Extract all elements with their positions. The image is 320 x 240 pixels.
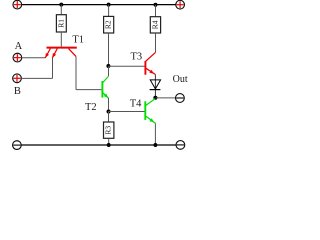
wire R3 bottom lead [108, 138, 110, 145]
wire node to T3 base [108, 65, 145, 67]
wire node to T4 base [109, 111, 145, 113]
resistor R2 [104, 16, 114, 33]
terminal Out [176, 94, 185, 103]
svg-text:B: B [14, 86, 21, 97]
svg-text:R3: R3 [104, 126, 113, 135]
wire T1 collector vertical [75, 56, 77, 89]
wire T2 collector vertical [108, 66, 110, 76]
svg-text:Out: Out [173, 74, 188, 85]
junction dot bottom rail at T4 [153, 143, 157, 147]
svg-text:R4: R4 [151, 20, 160, 29]
svg-text:T1: T1 [72, 35, 84, 46]
resistor R3 [104, 122, 114, 138]
wire R1 bottom lead to T1 base [60, 32, 62, 47]
top supply rail [22, 4, 176, 6]
svg-text:T2: T2 [85, 102, 97, 113]
wire R4 bottom lead to T3 collector [155, 33, 157, 52]
node dot T2 emitter/T4 base/R3 [107, 110, 111, 114]
terminal GND- bottom-right [176, 141, 185, 150]
terminal input A [13, 53, 22, 62]
wire output [156, 97, 176, 99]
junction dot bottom rail at R3 [107, 143, 111, 147]
transistor T2 (green) [102, 76, 108, 98]
node dot output [153, 96, 157, 100]
svg-text:T4: T4 [130, 99, 142, 110]
wire R2 bottom lead to node [108, 33, 110, 66]
wire input B horizontal [21, 77, 52, 79]
transistor T1 multi-emitter (red) [45, 48, 77, 58]
junction dot top rail at R2 [107, 3, 111, 7]
resistor R1 [56, 15, 66, 32]
terminal V+ top-right [176, 0, 185, 9]
terminal GND- bottom-left [13, 141, 22, 150]
transistor T3 (red) [145, 52, 155, 74]
junction dot top rail at R1 [59, 3, 63, 7]
wire node down to R3 [108, 112, 110, 123]
wire T1 collector to T2 base [76, 89, 102, 91]
transistor T4 (green) [145, 99, 155, 124]
svg-text:T3: T3 [131, 52, 143, 63]
resistor R4 [150, 17, 160, 33]
wire T2 emitter vertical [108, 98, 110, 112]
terminal input B [13, 74, 22, 83]
svg-text:R2: R2 [104, 20, 113, 29]
diode D1 [150, 80, 161, 90]
diode D1 anode lead [154, 75, 156, 98]
wire R2 top lead [108, 5, 110, 17]
wire T4 emitter vertical [154, 123, 156, 145]
svg-text:A: A [15, 41, 23, 52]
wire R1 top lead [60, 5, 62, 15]
wire input B vertical to T1 emitter2 [52, 58, 54, 79]
node dot R2/T2 collector/T3 base [106, 64, 110, 68]
terminal V+ top-left [13, 0, 22, 9]
wire input A to T1 emitter1 [22, 57, 45, 59]
junction dot top rail at R4 [154, 3, 158, 7]
wire R4 top lead [155, 5, 157, 17]
bottom ground rail [21, 144, 176, 146]
svg-text:R1: R1 [56, 19, 65, 28]
